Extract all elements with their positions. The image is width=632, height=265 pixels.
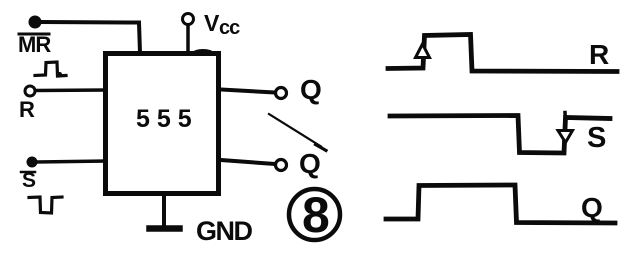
trigger arrow on S rising edge xyxy=(558,131,573,143)
svg-text:8: 8 xyxy=(302,187,330,243)
wire Q output xyxy=(221,90,275,93)
wire MR to IC top xyxy=(41,22,140,53)
label MR (with overbar) xyxy=(18,32,51,57)
overbar slash of Q-bar label xyxy=(269,114,321,147)
Q output terminal xyxy=(276,88,287,99)
Q-bar output terminal xyxy=(276,160,287,171)
S input terminal dot xyxy=(27,157,38,168)
svg-text:S: S xyxy=(587,122,606,154)
wire Q-bar output xyxy=(221,160,275,164)
R input terminal xyxy=(25,86,35,96)
wire R to IC xyxy=(36,88,106,92)
wire Vcc to IC top xyxy=(186,25,190,53)
positive pulse symbol at R input xyxy=(35,62,66,76)
svg-text:MR: MR xyxy=(18,32,51,57)
svg-text:R: R xyxy=(589,39,609,70)
node MR (input terminal dot) xyxy=(29,16,42,29)
svg-text:Q: Q xyxy=(581,192,603,223)
svg-text:Q: Q xyxy=(300,74,322,105)
trigger arrow on R rising edge xyxy=(416,44,430,58)
wire S to IC xyxy=(37,161,106,162)
figure number 8 (circled) xyxy=(289,187,340,243)
waveform trace R xyxy=(388,35,617,72)
ground xyxy=(150,196,180,229)
waveform trace Q xyxy=(386,185,615,223)
Vcc terminal xyxy=(183,14,194,25)
svg-text:Q: Q xyxy=(299,148,321,179)
IC U1 555 body xyxy=(106,54,219,194)
svg-text:S: S xyxy=(22,169,36,192)
overshoot tick on S rising edge xyxy=(563,113,567,121)
svg-text:cc: cc xyxy=(219,17,240,39)
svg-text:V: V xyxy=(204,10,220,36)
waveform trace S xyxy=(390,116,610,154)
svg-text:GND: GND xyxy=(196,216,253,246)
svg-text:R: R xyxy=(19,97,35,122)
ink blob on pulse symbol tail xyxy=(57,72,62,77)
label Vcc xyxy=(204,10,240,39)
negative pulse symbol at S input xyxy=(29,197,62,213)
solder blob on IC top edge xyxy=(193,49,213,56)
svg-text:555: 555 xyxy=(136,105,199,133)
label S-bar (with overbar) xyxy=(21,169,36,192)
